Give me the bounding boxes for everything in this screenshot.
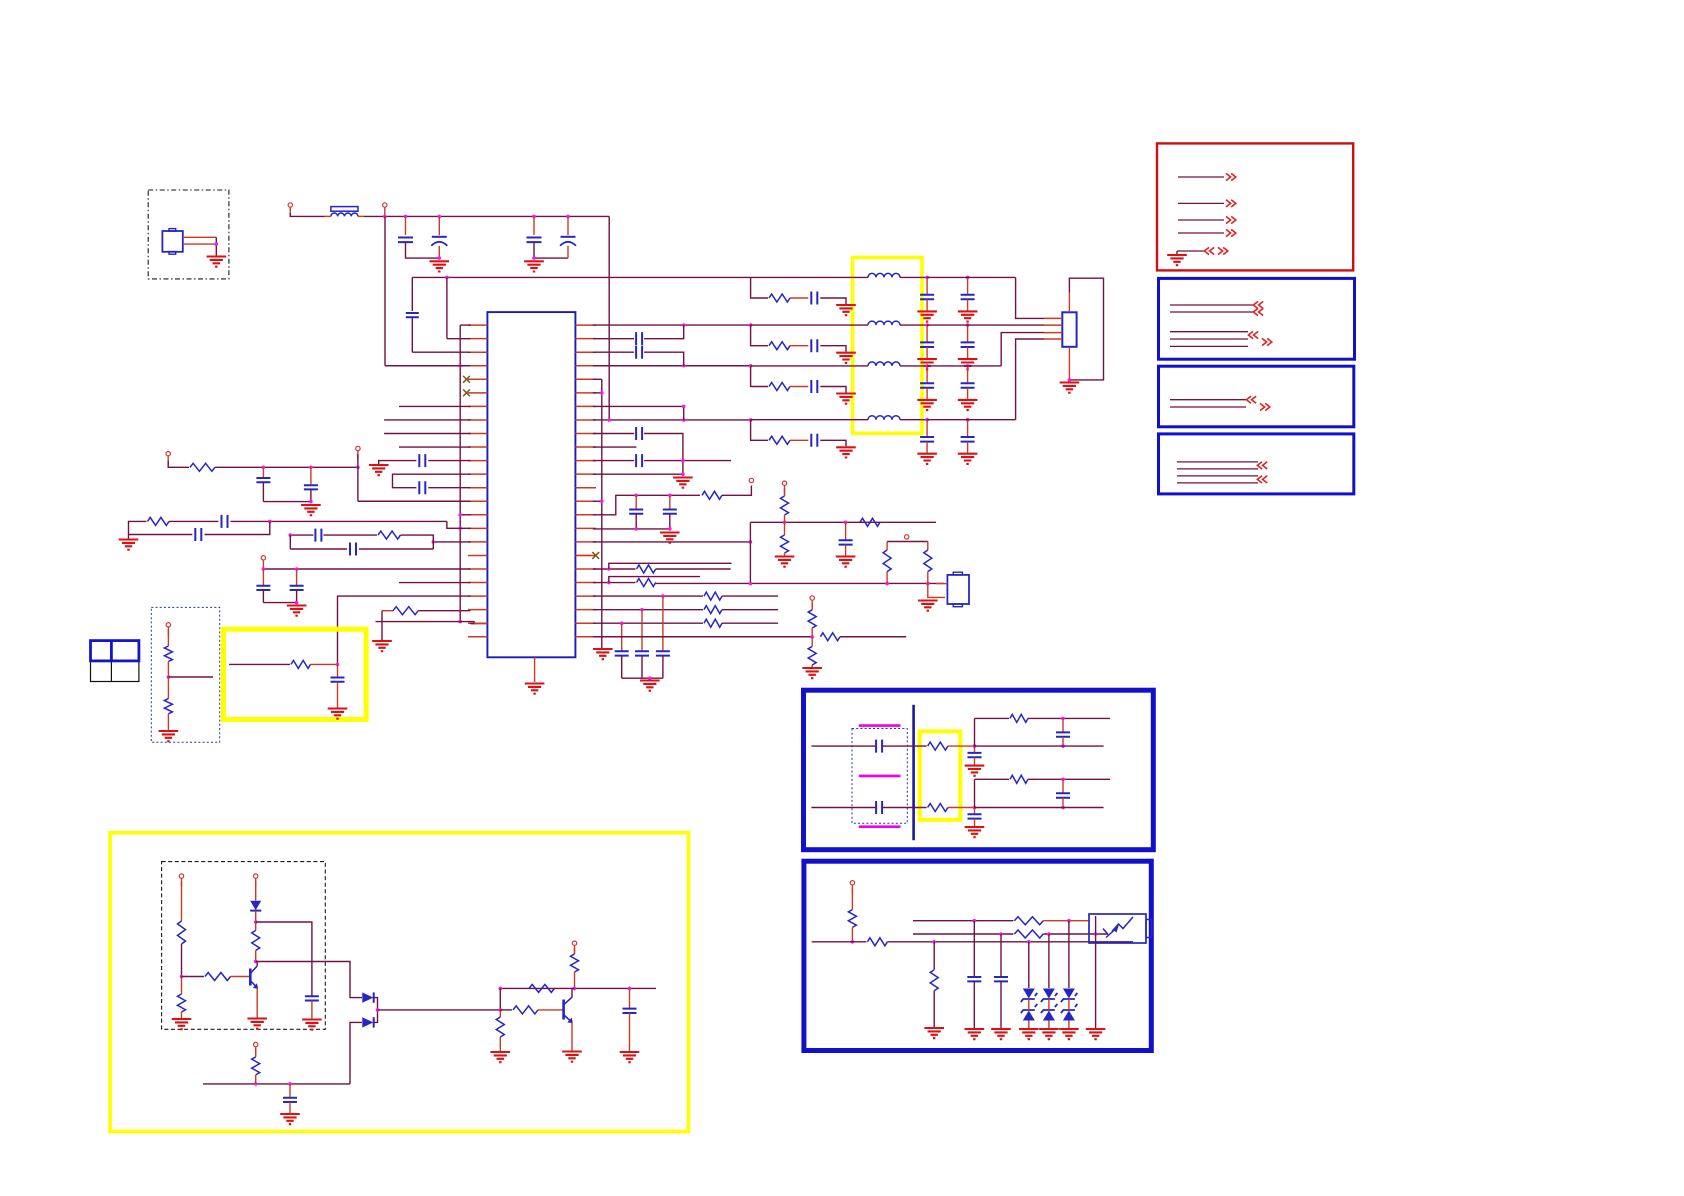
resistor R23 — [769, 342, 790, 350]
junction row3 a — [682, 364, 686, 368]
wire branch2 mid — [790, 345, 808, 347]
wire row1 drop to pin2 — [446, 277, 448, 338]
wire lineA1 out — [948, 745, 975, 747]
wire C33 gnd lead — [926, 347, 928, 358]
wire R30 bottom lead — [255, 1075, 257, 1084]
ground rail pair2 — [524, 261, 544, 271]
wire R5 to node — [167, 662, 169, 678]
wire netP mid — [323, 534, 377, 536]
terminal P4 — [261, 556, 265, 569]
resistor R3 — [148, 517, 170, 525]
ground capnet — [660, 533, 680, 543]
junction row4 rail — [607, 418, 611, 422]
wire pin3R — [593, 351, 634, 353]
wire C9 top lead — [296, 569, 298, 585]
wire lineA2 east — [975, 807, 1104, 809]
wire pin20R jog — [609, 577, 700, 583]
wire net522 — [750, 521, 936, 523]
ground C42 — [620, 1052, 640, 1062]
wire pin10 left — [399, 446, 471, 448]
wire row1 left drop — [411, 277, 413, 311]
wire R29 bottom lead — [255, 950, 257, 961]
ground lineA1 — [965, 766, 985, 776]
wire C49 top lead — [973, 921, 975, 977]
junction upper1 — [1061, 717, 1065, 721]
wire arrow net 4 — [1178, 232, 1224, 234]
capacitor C30 — [811, 434, 817, 447]
wire C34 gnd lead — [967, 347, 969, 358]
resistor R32 — [529, 984, 555, 992]
wire pin21R — [593, 595, 703, 597]
capacitor C48 — [1056, 793, 1070, 797]
junction netP — [289, 533, 293, 537]
terminal P9 — [905, 535, 909, 539]
wire yb2 in — [229, 663, 290, 665]
connector J1 pin leads — [1044, 318, 1062, 339]
wire branch3 mid — [790, 386, 808, 388]
resistor R20 — [820, 633, 840, 641]
wire C38 gnd lead — [967, 442, 969, 453]
wire C42 gnd lead — [629, 1013, 631, 1051]
wire crystal ground link — [215, 237, 217, 255]
wire C31 lead — [926, 277, 928, 294]
ground R1 — [372, 641, 392, 651]
capacitor C11 — [304, 485, 318, 489]
resistor R29 — [252, 930, 260, 950]
node bidir in — [1204, 247, 1214, 254]
ground rail pair1 — [430, 261, 450, 271]
resistor R8 — [702, 491, 722, 499]
wire pin11 gnd hook — [379, 461, 417, 464]
ground divider — [159, 731, 179, 741]
wire caps bottom — [622, 677, 663, 679]
wire tvs3 gnd — [1068, 1021, 1070, 1029]
ground lineA2 — [965, 827, 985, 837]
ground row4 col2 — [958, 454, 978, 464]
capacitor C16 — [331, 678, 345, 682]
wire C1 top lead — [405, 216, 407, 235]
wire pin7R — [593, 405, 684, 407]
capacitor C46 — [968, 814, 982, 818]
junction row1 col2 — [966, 276, 970, 280]
wire row1 into box — [751, 276, 868, 278]
wire C21 bottom lead — [635, 514, 637, 529]
ground right caps — [673, 478, 693, 488]
wire C31 gnd lead — [926, 299, 928, 310]
junction lineA2 — [973, 806, 977, 810]
wire R18 out — [722, 622, 778, 624]
wire C48 top lead — [1062, 779, 1064, 792]
resistor R27 — [178, 994, 186, 1012]
resistor R42 — [1014, 930, 1043, 938]
junction pin12R — [681, 472, 685, 476]
node b2 out — [1260, 403, 1270, 410]
node bar magenta 2 — [859, 775, 901, 778]
wire tvs2 gnd — [1048, 1021, 1050, 1029]
dashed enclosure (bias divider) — [151, 607, 219, 742]
wire branch2 — [751, 325, 768, 346]
junction bus pin15 — [458, 513, 462, 517]
wire pin9 left — [384, 433, 470, 435]
terminal P15 — [850, 881, 854, 894]
wire C50 top lead — [1000, 934, 1002, 976]
wire pin5R — [593, 392, 602, 394]
wire row1 east — [927, 276, 1016, 278]
junction row4 b — [749, 418, 753, 422]
module box (blue A) — [804, 690, 1154, 850]
wire pin7R jog — [683, 406, 685, 420]
ground C49 — [965, 1029, 985, 1039]
junction bus pin5R — [600, 391, 604, 395]
wire R33 top lead — [499, 1010, 501, 1017]
junction x750 — [749, 540, 753, 544]
wire C26 top lead — [662, 596, 664, 650]
wire C37 lead — [926, 420, 928, 437]
ground bias — [172, 1019, 192, 1029]
wire R21 gnd lead — [811, 665, 813, 667]
wire lineA2 in — [811, 807, 876, 809]
junction row2 col2 — [966, 323, 970, 327]
junction rail A — [383, 215, 387, 219]
capacitor C50 — [994, 977, 1008, 981]
capacitor C3 — [527, 238, 542, 243]
wire upper2 out — [1028, 778, 1110, 780]
junction pin7R — [682, 405, 686, 409]
bus divider bar — [912, 705, 915, 840]
node b1 in b — [1253, 308, 1263, 315]
wire lineA2 mid — [882, 807, 927, 809]
wire rowB loop v — [205, 521, 270, 534]
wire C37 gnd lead — [926, 442, 928, 453]
wire b1 line4 — [1170, 338, 1248, 340]
dashed enclosure (bias network) — [162, 862, 326, 1030]
junction pin23R — [620, 621, 624, 625]
wire C4 top lead — [567, 216, 569, 235]
ground row4 col1 — [917, 454, 937, 464]
wire R1 gnd link — [381, 611, 383, 640]
ground pin11 — [369, 465, 389, 475]
wire b2 line2 — [1170, 406, 1246, 408]
junction L3 c — [1027, 940, 1031, 944]
inductor L3 — [868, 362, 900, 366]
wire C32 gnd lead — [967, 299, 969, 310]
wire rowB jog — [447, 521, 471, 528]
wire R43 gnd lead — [933, 991, 935, 1027]
junction net583 b — [885, 582, 889, 586]
resistor R31 — [571, 954, 579, 972]
capacitor C18 — [636, 346, 642, 359]
wire R11 top lead — [784, 522, 786, 535]
wire C35 lead — [926, 366, 928, 383]
junction L1 a — [973, 919, 977, 923]
node arrow 2 — [1226, 200, 1236, 207]
wire branch1 mid — [790, 297, 808, 299]
highlight box (series resistors) — [920, 731, 961, 820]
diode D9 (TVS) — [1063, 1011, 1075, 1021]
wire pin1R row2 — [593, 324, 751, 326]
junction crystal gnd — [215, 242, 219, 246]
wire bidir gnd link — [1176, 251, 1178, 254]
junction row4 a — [682, 418, 686, 422]
ground R33 — [491, 1052, 511, 1062]
wire J1 shield loop — [1069, 278, 1103, 380]
wire C11 top lead — [310, 467, 312, 484]
node bar magenta 3 — [859, 825, 901, 828]
junction rowB a — [268, 520, 272, 524]
capacitor C32 — [961, 295, 975, 300]
wire pin21 chain — [338, 596, 471, 664]
junction row4 col1 — [925, 418, 929, 422]
junction pin19R — [607, 567, 611, 571]
junction lineA1 — [973, 744, 977, 748]
wire C10 top lead — [262, 467, 264, 477]
junction row2 a — [682, 323, 686, 327]
wire R1 left lead — [382, 610, 393, 612]
resistor R37 — [1010, 714, 1028, 722]
wire R6 top lead — [167, 677, 169, 699]
wire L2 — [913, 933, 1013, 935]
capacitor C42 — [623, 1009, 637, 1013]
resistor R10 — [781, 496, 789, 515]
junction bus pin4 — [458, 364, 462, 368]
resistor R5 — [164, 646, 172, 662]
junction row3 b — [749, 364, 753, 368]
wire R31 top lead — [574, 948, 576, 954]
wire amp vert — [499, 988, 501, 1010]
wire R19 top lead — [811, 603, 813, 610]
wire x750 vertical — [749, 522, 751, 583]
wire netP right — [401, 535, 434, 549]
wire C50 gnd lead — [1000, 981, 1002, 1028]
resistor R14 — [883, 550, 891, 572]
node b1 bus in — [1248, 331, 1258, 338]
diode D5 (TVS) — [1023, 1011, 1035, 1021]
wire pin20 left — [399, 582, 471, 584]
ground C41 — [280, 1114, 300, 1124]
wire pin4R row3 — [593, 365, 751, 367]
junction amp a — [499, 987, 503, 991]
wire row4 to J1 — [1016, 339, 1044, 420]
wire tvs1 feed — [1028, 942, 1030, 988]
inductor winding FB1 — [331, 213, 358, 216]
junction rowA c — [356, 466, 360, 470]
capacitor C5 — [406, 313, 419, 317]
wire C22 top lead — [669, 495, 671, 508]
wire R17 out — [722, 609, 778, 611]
wire R15 bottom lead — [927, 572, 929, 584]
wire L1 — [913, 920, 1013, 922]
terminal P3 — [356, 446, 360, 459]
ground row3 col1 — [917, 400, 937, 410]
diode D2 — [362, 992, 373, 1002]
junction net522 b — [844, 521, 848, 525]
junction capnet a — [634, 494, 638, 498]
capacitor C9 — [290, 586, 304, 590]
junction row1 col1 — [925, 276, 929, 280]
wire crystal pin2 — [183, 243, 217, 245]
highlight box (filter coils) — [853, 258, 922, 434]
junction pin20R — [607, 581, 611, 585]
junction J1 gnd — [1068, 378, 1072, 382]
wire R39 bottom lead — [851, 927, 853, 941]
wire buzzer pin1 — [936, 583, 947, 585]
junction lineA2b — [1061, 806, 1065, 810]
capacitor C2 (polarized) — [432, 236, 447, 238]
wire pin8R row4 — [593, 419, 751, 421]
wire pin16R — [593, 528, 670, 530]
ground row3 col2 — [958, 400, 978, 410]
capacitor C7 — [419, 481, 425, 494]
wire rail to row4 — [608, 216, 610, 419]
capacitor C31 — [920, 295, 934, 300]
junction L2 a — [999, 932, 1003, 936]
wire C9 bottom lead — [296, 590, 298, 603]
junction P17 — [432, 540, 436, 544]
junction bottom b — [288, 1082, 292, 1086]
wire pin3 left — [412, 351, 470, 353]
wire C33 lead — [926, 325, 928, 342]
capacitor C19 — [636, 427, 642, 440]
no-connect X2 — [463, 389, 470, 396]
capacitor C1 — [398, 238, 413, 243]
wire C34 lead — [967, 325, 969, 342]
wire top rail — [290, 213, 325, 216]
wire pin12 loop — [393, 474, 471, 488]
resistor R39 — [848, 910, 856, 928]
wire branch4 — [751, 420, 768, 441]
ferrite bead FB1 — [331, 207, 358, 212]
wire P11 lead — [181, 881, 183, 921]
ground crystal — [207, 257, 227, 267]
wire pin9R — [593, 433, 634, 435]
junction bus pin16 — [458, 527, 462, 531]
capacitor C22 — [663, 510, 677, 514]
resistor R6 — [164, 699, 172, 714]
wire C23 top lead — [845, 522, 847, 539]
wire tvs3 feed — [1068, 921, 1070, 988]
junction net583 a — [749, 582, 753, 586]
dashed enclosure (coupling caps) — [852, 729, 907, 824]
junction net637 — [810, 635, 814, 639]
resistor R19 — [808, 610, 816, 628]
ground snub — [302, 1020, 322, 1030]
wire J1 bottom lead — [1068, 347, 1070, 380]
wire pin4R corner — [593, 378, 602, 380]
wire R15 top lead — [927, 542, 929, 551]
node arrow 3 — [1226, 216, 1236, 223]
junction L1 b — [1067, 919, 1071, 923]
node bar magenta 1 — [859, 724, 901, 727]
capacitor C12 — [222, 515, 228, 528]
node b3 in b — [1257, 476, 1267, 483]
resistor R40 — [867, 938, 887, 946]
wire row2 out of box — [900, 324, 927, 326]
wire row3 east — [927, 365, 1001, 367]
resistor R18 — [704, 619, 722, 627]
wire rtop — [887, 541, 928, 543]
ground C23 — [836, 557, 856, 567]
junction rowA b — [309, 466, 313, 470]
wire R21 top lead — [811, 637, 813, 647]
junction C2 gnd — [438, 256, 442, 260]
wire C46 gnd lead — [974, 819, 976, 826]
ground R11 — [775, 557, 795, 567]
wire pin22R — [593, 609, 703, 611]
wire pin7 left — [399, 405, 471, 407]
wire C35 gnd lead — [926, 388, 928, 399]
resistor R4 — [378, 531, 401, 539]
wire lineA2 up — [974, 779, 976, 807]
capacitor C20 — [636, 454, 642, 467]
wire b1 line5 — [1170, 345, 1248, 347]
wire b3 line1 — [1177, 461, 1258, 463]
junction amp b — [573, 987, 577, 991]
resistor R21 — [808, 646, 816, 665]
capacitor C24 — [615, 651, 629, 655]
wire P3 vertical — [357, 454, 359, 501]
wire row1 out of box — [900, 276, 927, 278]
inductor L1 — [868, 273, 900, 277]
wire C25 bottom lead — [641, 656, 643, 679]
junction yb2 — [336, 663, 340, 667]
connector grid symbol — [91, 661, 139, 682]
resistor R33 — [496, 1017, 504, 1037]
wire C45 gnd lead — [974, 757, 976, 764]
wire L2 east — [1043, 933, 1108, 935]
terminal P13 — [254, 1042, 258, 1055]
wire R27 gnd lead — [181, 1012, 183, 1018]
junction row3 col1 — [925, 364, 929, 368]
wire C25 top lead — [641, 610, 643, 651]
ground Q1 — [247, 1019, 267, 1029]
wire branch3 — [751, 366, 768, 387]
wire R10 top lead — [784, 488, 786, 496]
wire base lead — [231, 976, 250, 978]
ground rowE — [287, 606, 307, 616]
wire P15 lead — [851, 888, 853, 910]
wire arrow net 2 — [1178, 202, 1224, 204]
resistor R34 — [513, 1006, 538, 1014]
capacitor C13 — [195, 528, 201, 541]
wire C48 bottom lead — [1062, 798, 1064, 808]
capacitor C10 — [256, 478, 270, 482]
wire row3 to J1 — [1001, 333, 1044, 366]
ground rowB — [119, 540, 139, 550]
wire pin11R out — [644, 460, 731, 462]
terminal P10 — [810, 596, 814, 609]
node b3 in a — [1257, 462, 1267, 469]
wire branch3 out — [820, 387, 846, 393]
junction pin22R — [640, 608, 644, 612]
wire rowA bottom — [263, 501, 311, 503]
ground row2 col1 — [917, 359, 937, 369]
junction D1 — [254, 920, 258, 924]
op-amp U1 (main IC body) — [487, 312, 575, 657]
wire L3 — [812, 941, 867, 943]
capacitor C6 — [419, 454, 425, 467]
junction row2 b — [749, 323, 753, 327]
wire C21 top lead — [635, 495, 637, 508]
wire rowB loop left — [129, 534, 193, 536]
wire pin19R jog — [609, 563, 732, 569]
junction row3 col2 — [966, 364, 970, 368]
junction L2 c — [1094, 932, 1098, 936]
wire pin14 left — [358, 500, 471, 502]
wire C16 gnd lead — [337, 682, 339, 708]
ground branch2 — [836, 353, 856, 363]
wire pin17 left — [433, 541, 470, 543]
resistor R17 — [704, 606, 722, 614]
